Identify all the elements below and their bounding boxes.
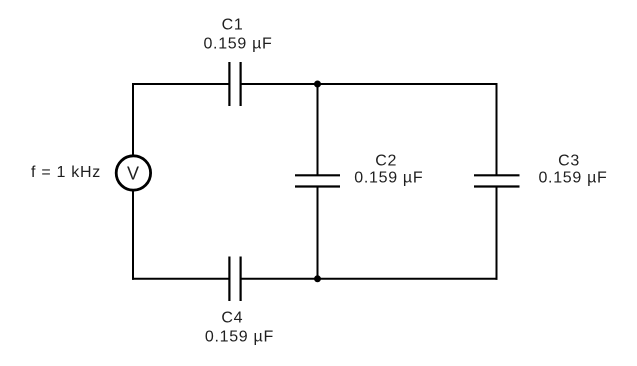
wire right vertical lower xyxy=(496,187,498,280)
wire left vertical lower xyxy=(132,191,134,280)
svg-text:0.159 µF: 0.159 µF xyxy=(354,170,423,187)
wire bottom-middle horizontal xyxy=(242,278,318,280)
capacitor C2 xyxy=(295,175,340,186)
voltage source V xyxy=(116,156,150,190)
label f = 1 kHz xyxy=(31,164,101,181)
label C3 value 0.159 µF xyxy=(538,170,607,187)
wire bottom-left horizontal xyxy=(132,278,229,280)
wire right vertical upper xyxy=(496,83,498,176)
label C2 value 0.159 µF xyxy=(354,170,423,187)
svg-text:0.159 µF: 0.159 µF xyxy=(203,36,272,53)
capacitor C3 xyxy=(474,175,520,186)
svg-text:C1: C1 xyxy=(222,17,244,34)
capacitor C1 xyxy=(229,62,240,106)
label C4 xyxy=(221,310,243,327)
wire top-right horizontal xyxy=(318,83,498,85)
capacitor C4 xyxy=(229,257,240,302)
svg-text:0.159 µF: 0.159 µF xyxy=(205,329,274,346)
label C3 xyxy=(558,153,580,170)
label C1 xyxy=(222,17,244,34)
label C4 value 0.159 µF xyxy=(205,329,274,346)
svg-text:C4: C4 xyxy=(221,310,243,327)
wire middle vertical lower xyxy=(317,187,319,279)
svg-text:C3: C3 xyxy=(558,153,580,170)
label C1 value 0.159 µF xyxy=(203,36,272,53)
svg-text:0.159 µF: 0.159 µF xyxy=(538,170,607,187)
wire middle vertical upper xyxy=(317,84,319,176)
svg-text:C2: C2 xyxy=(375,153,397,170)
label C2 xyxy=(375,153,397,170)
svg-text:V: V xyxy=(127,164,140,184)
wire top-left horizontal xyxy=(132,83,229,85)
wire left vertical upper xyxy=(132,83,134,156)
node B junction dot (bottom) xyxy=(314,275,321,282)
wire bottom-right horizontal xyxy=(318,278,498,280)
wire top-middle horizontal xyxy=(242,83,318,85)
node A junction dot (top) xyxy=(314,81,321,88)
svg-text:f = 1 kHz: f = 1 kHz xyxy=(31,164,101,181)
